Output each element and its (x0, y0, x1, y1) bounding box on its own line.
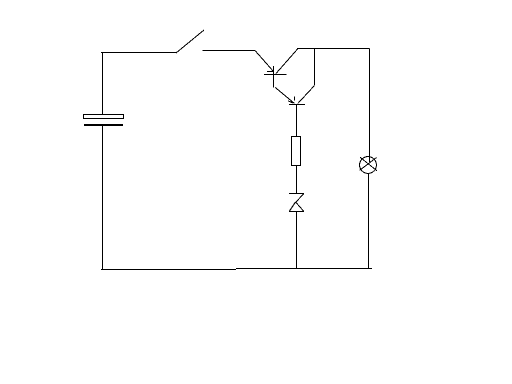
resistor R1 (292, 137, 301, 166)
wire right vertical lower (368, 174, 370, 269)
transistor Q2 (288, 49, 315, 137)
wire bottom left (101, 269, 236, 271)
wire switch right lead (203, 50, 256, 52)
transistor Q1 (255, 49, 298, 104)
wire bottom right (236, 268, 372, 270)
lamp L1 (360, 157, 377, 174)
wire top bus (297, 48, 370, 50)
switch S1 blade (176, 30, 204, 53)
zener diode D1 (289, 194, 304, 212)
wire top-left horizontal (101, 52, 176, 54)
wire right vertical upper (369, 49, 371, 163)
wire resistor to zener (296, 166, 298, 194)
wire left vertical upper (102, 53, 104, 115)
wire zener to bottom (296, 212, 298, 270)
wire left vertical lower (102, 126, 104, 270)
battery B1 (84, 115, 124, 127)
